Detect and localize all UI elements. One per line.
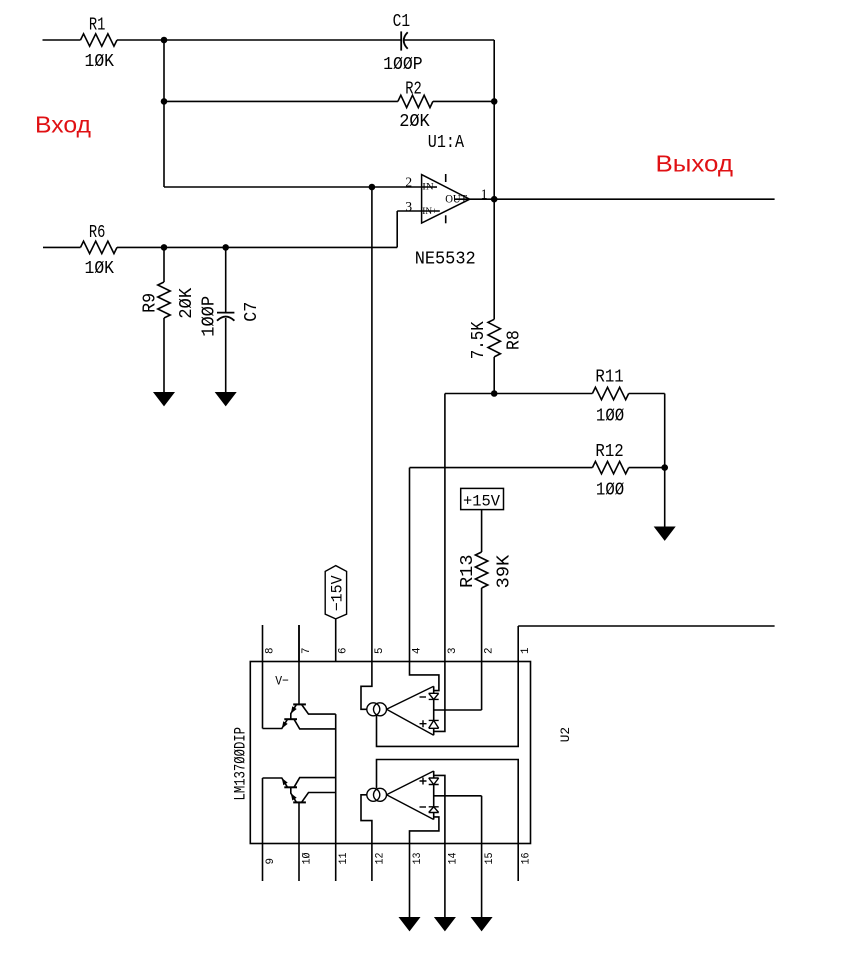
svg-text:U2: U2 — [559, 727, 573, 742]
ground R9 — [154, 393, 174, 406]
wire R11 corner down — [664, 394, 666, 468]
ground C7 — [216, 393, 236, 406]
svg-text:R8: R8 — [505, 330, 525, 350]
svg-text:2: 2 — [405, 174, 412, 189]
ground pin15 — [472, 918, 492, 931]
op-amp U1 triangle — [422, 175, 470, 223]
resistor R6 — [81, 241, 118, 253]
wire pin5 net vertical — [371, 187, 373, 662]
Q2 emitter — [263, 719, 288, 728]
pin15 internal vertical — [481, 796, 483, 844]
svg-text:1ØØP: 1ØØP — [383, 55, 423, 75]
svg-text:14: 14 — [447, 852, 459, 864]
plus label A — [420, 720, 427, 727]
wire input to R6 — [43, 246, 81, 248]
pin 13 wire to ground — [409, 844, 411, 918]
wire R12 row — [410, 467, 593, 469]
svg-text:5: 5 — [374, 648, 386, 655]
svg-text:1: 1 — [520, 647, 532, 654]
wire down to ground — [664, 468, 666, 527]
svg-text:2ØK: 2ØK — [399, 112, 430, 132]
node vertical left R1-R2 — [163, 40, 165, 101]
resistor R12 — [592, 461, 628, 473]
minus label B — [420, 806, 427, 808]
node R1/C1 junction — [161, 37, 168, 44]
OTA-B current source circles — [367, 788, 380, 801]
pin10 internal wire — [298, 802, 300, 843]
node R12/R11 junction — [661, 464, 668, 471]
svg-text:12: 12 — [374, 853, 386, 865]
svg-text:9: 9 — [265, 858, 277, 865]
diode A-minus — [429, 693, 439, 699]
diode B-plus — [429, 778, 439, 785]
Q1 emitter — [291, 704, 297, 719]
node R2 left junction — [161, 98, 168, 105]
svg-text:16: 16 — [521, 853, 533, 865]
wire R11 row — [445, 393, 593, 395]
wire R11 right lead — [629, 393, 665, 395]
svg-text:6: 6 — [338, 648, 350, 655]
wire R2 right lead — [433, 100, 494, 102]
pin 7 stub — [298, 625, 300, 662]
pin 11 stub — [335, 844, 337, 882]
svg-text:R13: R13 — [458, 555, 478, 589]
wire +15V to R13 — [481, 510, 483, 552]
node R9 junction — [161, 244, 168, 251]
Q3 emitter arrow — [282, 778, 288, 785]
svg-text:4: 4 — [412, 647, 424, 654]
wire output to right — [494, 198, 774, 200]
OTA-A edge bottom seg — [433, 728, 435, 735]
svg-text:R2: R2 — [405, 79, 422, 99]
wire IN- horizontal — [164, 186, 437, 188]
svg-text:U1:A: U1:A — [428, 133, 464, 153]
svg-text:V−: V− — [275, 674, 289, 689]
wire pin3 into opamp — [397, 210, 421, 212]
svg-text:1ØK: 1ØK — [85, 259, 115, 279]
OTA-B triangle — [387, 771, 434, 820]
pin 10 stub — [298, 844, 300, 882]
ground pin14 — [435, 918, 455, 931]
ground pin13 — [400, 918, 420, 931]
svg-text:1ØØ: 1ØØ — [596, 406, 624, 426]
resistor R11 — [592, 387, 628, 399]
svg-text:R11: R11 — [595, 368, 623, 388]
transistor Q3 base bar — [284, 786, 297, 788]
svg-text:Выход: Выход — [656, 151, 734, 177]
Q1 emitter arrow — [291, 706, 297, 713]
wire node down to opamp out — [493, 101, 495, 199]
wire R8 bottom lead — [493, 357, 495, 394]
wire R12 right lead — [629, 467, 665, 469]
resistor R13 — [475, 552, 487, 588]
node R2/C1 right junction — [491, 98, 498, 105]
Q2 collector — [294, 719, 336, 729]
svg-text:C1: C1 — [393, 12, 411, 32]
wire R1 to node — [117, 39, 164, 41]
svg-text:7.5K: 7.5K — [469, 321, 489, 359]
svg-text:13: 13 — [412, 853, 424, 865]
resistor R2 — [398, 95, 433, 107]
pin line IN+ inside — [422, 210, 440, 212]
svg-text:2ØK: 2ØK — [177, 288, 197, 319]
svg-text:LM137ØØDIP: LM137ØØDIP — [231, 727, 249, 801]
ground R11/R12 — [655, 527, 675, 540]
pin7 internal wire — [298, 625, 300, 704]
transistor Q2 base bar — [284, 718, 297, 720]
svg-text:R1: R1 — [89, 16, 106, 36]
svg-text:R9: R9 — [140, 293, 160, 313]
Q2 emitter arrow — [282, 721, 288, 728]
IC U2 box — [250, 662, 530, 844]
svg-text:11: 11 — [338, 852, 350, 864]
pin 9 stub — [262, 844, 264, 882]
wire node to C1 — [164, 39, 401, 41]
pin1 internal to OTA-A bias bottom — [377, 662, 519, 747]
svg-text:IN-: IN- — [422, 183, 437, 193]
wire C7 bottom lead — [225, 318, 227, 393]
wire R8 top lead — [493, 199, 495, 319]
Q1 collector — [302, 704, 336, 714]
plus label B — [420, 778, 427, 785]
wire vertical to IN- net — [163, 101, 165, 187]
pin 14 wire to ground — [444, 844, 446, 918]
node diode midpoint B — [434, 795, 482, 797]
node pin5-net junction on IN- — [369, 184, 376, 191]
resistor R9 — [158, 282, 170, 318]
wire R9 bottom lead — [163, 318, 165, 393]
svg-text:+15V: +15V — [463, 492, 501, 510]
Q3 collector — [294, 778, 336, 788]
capacitor C1 — [400, 31, 402, 50]
wire -15V to pin6 — [335, 619, 337, 662]
svg-text:1ØK: 1ØK — [85, 52, 115, 72]
pin13 internal to OTA-B minus — [410, 817, 439, 844]
svg-text:8: 8 — [265, 648, 277, 655]
node output junction — [491, 196, 498, 203]
svg-text:7: 7 — [301, 648, 313, 655]
transistor Q4 base bar — [293, 801, 306, 803]
diode A-plus — [429, 720, 439, 728]
wire R2 left lead — [164, 100, 398, 102]
svg-text:1ØØ: 1ØØ — [596, 480, 624, 500]
wire pin1 stub up — [517, 626, 519, 662]
svg-text:C7: C7 — [242, 302, 262, 322]
pin 15 wire to ground — [481, 844, 483, 918]
Q4 emitter — [291, 787, 297, 802]
OTA-A edge mid seg — [433, 699, 435, 720]
wire pin4-col down — [409, 468, 411, 662]
OTA-A edge top seg — [433, 686, 435, 693]
svg-text:R12: R12 — [595, 442, 623, 462]
node R8/R11 junction — [491, 390, 498, 397]
pin 8 stub — [262, 625, 264, 662]
svg-text:−15V: −15V — [329, 575, 347, 612]
wire R6 to pin3 corner — [117, 246, 397, 248]
node C7 junction — [222, 244, 229, 251]
Q4 emitter arrow — [291, 793, 297, 800]
node diode midpoint A — [434, 709, 482, 711]
pin 12 stub — [371, 844, 373, 882]
supply +15V box — [461, 488, 504, 509]
svg-text:1ØØP: 1ØØP — [199, 296, 219, 337]
pin9 internal wire — [262, 778, 264, 844]
op-amp power tick top — [445, 174, 447, 182]
wire pin3 corner up — [396, 211, 398, 247]
svg-text:NE5532: NE5532 — [415, 249, 476, 269]
V+ rail vertical — [335, 714, 337, 843]
pin3 internal to OTA-A plus — [434, 662, 445, 732]
OTA-A current source circles — [367, 703, 380, 716]
svg-text:3: 3 — [447, 648, 459, 655]
wire C1 corner down — [493, 40, 495, 101]
OTA-B edge bottom seg — [433, 813, 435, 820]
pin 16 stub — [517, 844, 519, 882]
OTA-B edge mid seg — [433, 785, 435, 807]
supply -15V flag — [325, 566, 346, 619]
Q4 collector — [302, 793, 336, 803]
pin12 internal to OTA-B out — [361, 795, 372, 844]
wire C1 to corner — [404, 39, 494, 41]
svg-text:2: 2 — [484, 648, 496, 655]
pin14 internal to OTA-B plus — [434, 775, 445, 843]
op-amp power tick bottom — [445, 215, 447, 223]
svg-text:1Ø: 1Ø — [302, 852, 314, 864]
Q3 emitter — [263, 778, 288, 787]
resistor R1 — [81, 34, 118, 46]
wire pin1 to right — [518, 625, 774, 627]
pin2 internal vertical — [481, 662, 483, 711]
transistor Q1 base bar — [293, 703, 306, 705]
svg-text:Вход: Вход — [35, 111, 91, 137]
minus label A — [420, 696, 427, 698]
wire C7 top lead — [225, 247, 227, 312]
diode B-minus — [429, 807, 439, 813]
pin4 internal to OTA-A minus — [410, 662, 439, 691]
wire pin3-col down — [444, 394, 446, 662]
capacitor C7 — [217, 312, 234, 314]
wire R13 to pin2 — [481, 588, 483, 662]
pin5 internal to OTA-A bias — [361, 662, 372, 710]
wire input to R1 — [43, 39, 81, 41]
svg-text:R6: R6 — [89, 223, 106, 243]
pin16 internal to OTA-B bias top — [377, 760, 519, 844]
wire R9 top lead — [163, 247, 165, 282]
OTA-B edge top seg — [433, 771, 435, 778]
OTA-A triangle — [387, 686, 434, 735]
svg-text:15: 15 — [484, 853, 496, 865]
svg-text:39K: 39K — [495, 555, 515, 589]
wire opamp output — [455, 198, 494, 200]
pin8 internal wire — [262, 662, 264, 729]
resistor R8 — [488, 319, 500, 357]
